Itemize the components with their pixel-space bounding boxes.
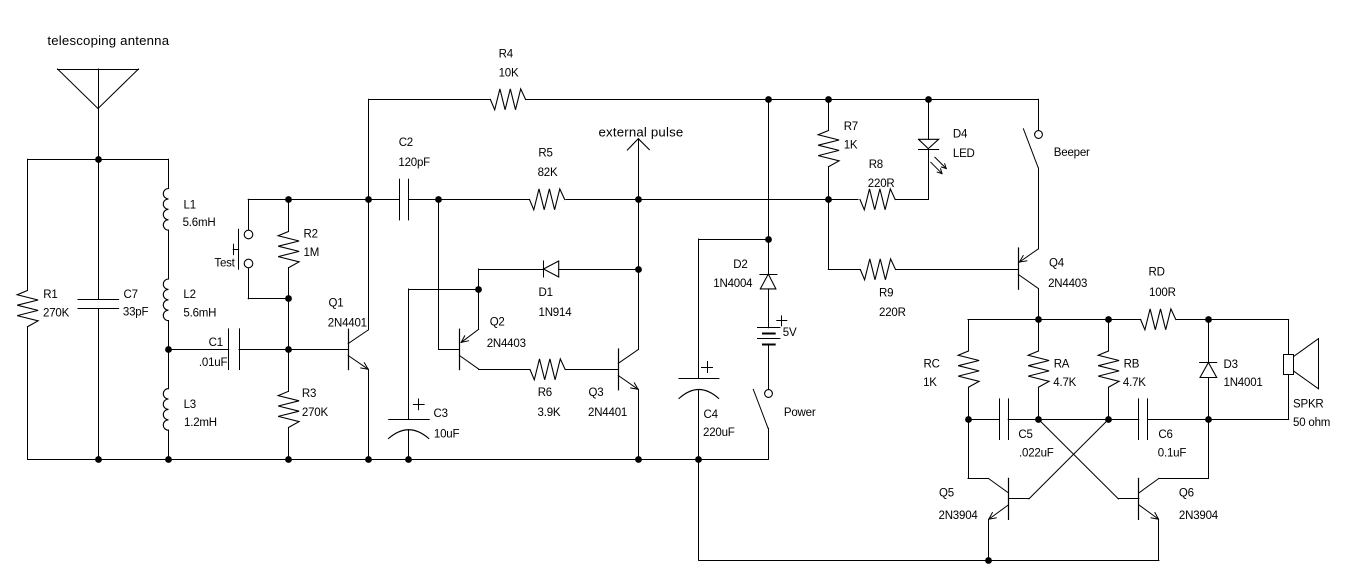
svg-text:3.9K: 3.9K [538,407,561,419]
svg-text:Q2: Q2 [490,316,505,328]
wire: cross-coupling Q6 base [1038,419,1118,499]
svg-text:R9: R9 [879,287,893,299]
svg-text:0.1uF: 0.1uF [1158,448,1187,460]
resistor R9 [828,199,830,269]
resistor R1 [27,159,29,290]
svg-text:10K: 10K [499,68,519,80]
node: R2 top junction [285,196,292,203]
svg-text:D2: D2 [733,259,747,271]
transistor Q3 [618,349,620,390]
svg-text:5V: 5V [783,327,797,339]
svg-text:Q6: Q6 [1179,488,1194,500]
inductor L3 [168,349,170,388]
capacitor C2 [399,179,401,220]
svg-text:C5: C5 [1018,429,1032,441]
wire: antenna top node horizontal [28,159,169,161]
transistor Q2 [459,329,461,369]
svg-text:2N4403: 2N4403 [487,338,526,350]
svg-text:RC: RC [924,359,940,371]
wire: lower ground return rail [698,459,700,560]
svg-text:.01uF: .01uF [199,357,228,369]
svg-text:5.6mH: 5.6mH [183,217,216,229]
svg-text:R4: R4 [499,49,514,61]
capacitor C5 [999,399,1001,440]
svg-text:D1: D1 [539,287,553,299]
svg-text:R8: R8 [869,159,883,171]
svg-text:2N4403: 2N4403 [1048,278,1087,290]
node: Q5 emitter junction [985,557,992,564]
svg-text:R3: R3 [302,388,316,400]
svg-text:5.6mH: 5.6mH [183,308,216,320]
resistor RA [1038,320,1040,351]
resistor R3 [288,349,290,391]
transistor Q4 [1018,248,1020,289]
svg-text:C6: C6 [1158,429,1172,441]
diode D3 [1208,320,1210,363]
svg-text:Power: Power [784,407,816,419]
svg-text:RD: RD [1149,267,1165,279]
svg-text:1N914: 1N914 [539,307,573,319]
svg-text:270K: 270K [43,307,70,319]
node: base rail dots [965,416,972,423]
wire: supply drop to D2 [768,99,770,239]
node: R2 bottom junction [285,295,292,302]
svg-text:82K: 82K [538,167,558,179]
svg-text:.022uF: .022uF [1019,448,1054,460]
wire: multivibrator supply rail [968,319,1141,321]
svg-text:L2: L2 [183,289,195,301]
svg-text:C3: C3 [434,408,448,420]
svg-text:1N4004: 1N4004 [713,278,753,290]
svg-text:SPKR: SPKR [1293,399,1324,411]
wire: bottom ground rail [28,459,769,461]
svg-text:100R: 100R [1149,287,1176,299]
node: C1-R3-Q1 junction [285,346,292,353]
svg-text:220R: 220R [868,178,895,190]
transistor Q1 [348,329,350,369]
svg-text:Test: Test [214,257,235,269]
svg-text:telescoping antenna: telescoping antenna [47,33,169,48]
LED D4 [928,99,930,139]
node: Q2 emitter junction [475,286,482,293]
node: R7-R8-R9 junction [825,196,832,203]
svg-text:4.7K: 4.7K [1053,377,1076,389]
svg-text:L1: L1 [184,199,196,211]
svg-text:2N3904: 2N3904 [1179,510,1219,522]
capacitor C4 [698,239,700,379]
svg-text:Q5: Q5 [939,488,954,500]
svg-text:1K: 1K [923,377,937,389]
transistor Q6 [1138,478,1140,519]
wire: multivibrator base rail [968,419,999,421]
svg-text:220R: 220R [879,307,906,319]
node: C4 top junction [765,236,772,243]
svg-text:R5: R5 [538,148,552,160]
node: antenna junction [95,156,102,163]
svg-text:C2: C2 [399,137,413,149]
svg-text:2N3904: 2N3904 [939,510,979,522]
svg-text:external pulse: external pulse [599,124,684,139]
node: L2-L3 junction [165,346,172,353]
svg-text:Q3: Q3 [589,387,604,399]
resistor RD [1141,309,1176,330]
wire: external pulse arrow [627,139,649,150]
node: C2 right junction [435,196,442,203]
svg-text:R6: R6 [538,387,552,399]
battery 5V [758,327,780,329]
svg-text:10uF: 10uF [434,428,460,440]
svg-text:RA: RA [1054,359,1070,371]
wire: C2/R5 row [248,199,399,201]
node: D1 right junction [635,266,642,273]
svg-text:Q4: Q4 [1049,257,1065,269]
wire: Q1 collector to top rail [368,99,370,199]
node: R5-external pulse junction [635,196,642,203]
svg-text:1N4001: 1N4001 [1224,377,1263,389]
wire: C4 top [699,239,769,241]
svg-text:R7: R7 [844,121,858,133]
svg-text:120pF: 120pF [398,157,430,169]
svg-text:1.2mH: 1.2mH [184,417,217,429]
capacitor C6 [1138,399,1140,440]
capacitor C3 [408,289,410,419]
wire: cross-coupling Q5 base [1029,419,1109,499]
wire: C3 to Q2 emitter node [409,289,479,291]
resistor R8 [860,189,895,210]
inductor L1 [168,159,170,188]
svg-text:RB: RB [1124,359,1140,371]
inductor L2 [168,230,170,279]
node: Q1 collector junction [365,196,372,203]
node: supply rail dots [1035,316,1042,323]
diode D2 [768,239,770,274]
svg-text:C7: C7 [124,289,138,301]
svg-text:LED: LED [953,148,975,160]
resistor R5 [530,189,565,210]
node: ground dots [95,456,102,463]
wire: C2 to Q2 base [438,199,440,349]
svg-text:Beeper: Beeper [1054,147,1090,159]
svg-text:C4: C4 [704,409,719,421]
svg-text:Q1: Q1 [329,297,344,309]
svg-text:1M: 1M [304,247,320,259]
diode D1 [479,269,544,271]
svg-text:R1: R1 [43,289,57,301]
svg-text:D3: D3 [1224,359,1238,371]
svg-text:50 ohm: 50 ohm [1293,417,1330,429]
antenna [58,69,139,71]
resistor R7 [828,99,830,130]
speaker SPKR [1288,320,1290,420]
capacitor C7 [98,159,100,299]
transistor Q5 [1008,478,1010,519]
svg-text:2N4401: 2N4401 [588,407,627,419]
svg-text:D4: D4 [953,129,968,141]
capacitor C1 [168,349,228,351]
svg-text:L3: L3 [184,399,196,411]
resistor RB [1108,320,1110,351]
resistor R4 [369,99,491,101]
svg-text:270K: 270K [302,407,329,419]
svg-text:4.7K: 4.7K [1123,377,1146,389]
svg-text:1K: 1K [844,140,858,152]
svg-text:R2: R2 [304,228,318,240]
switch: Beeper [1038,99,1040,130]
switch: Power [765,390,773,398]
resistor RC [968,320,970,351]
svg-text:33pF: 33pF [123,307,149,319]
resistor R6 [530,359,565,380]
svg-text:C1: C1 [209,337,223,349]
svg-text:2N4401: 2N4401 [328,317,367,329]
svg-text:220uF: 220uF [703,427,735,439]
resistor R2 [288,199,290,231]
node: top rail dots [765,96,772,103]
switch: Test pushbutton [248,199,250,230]
